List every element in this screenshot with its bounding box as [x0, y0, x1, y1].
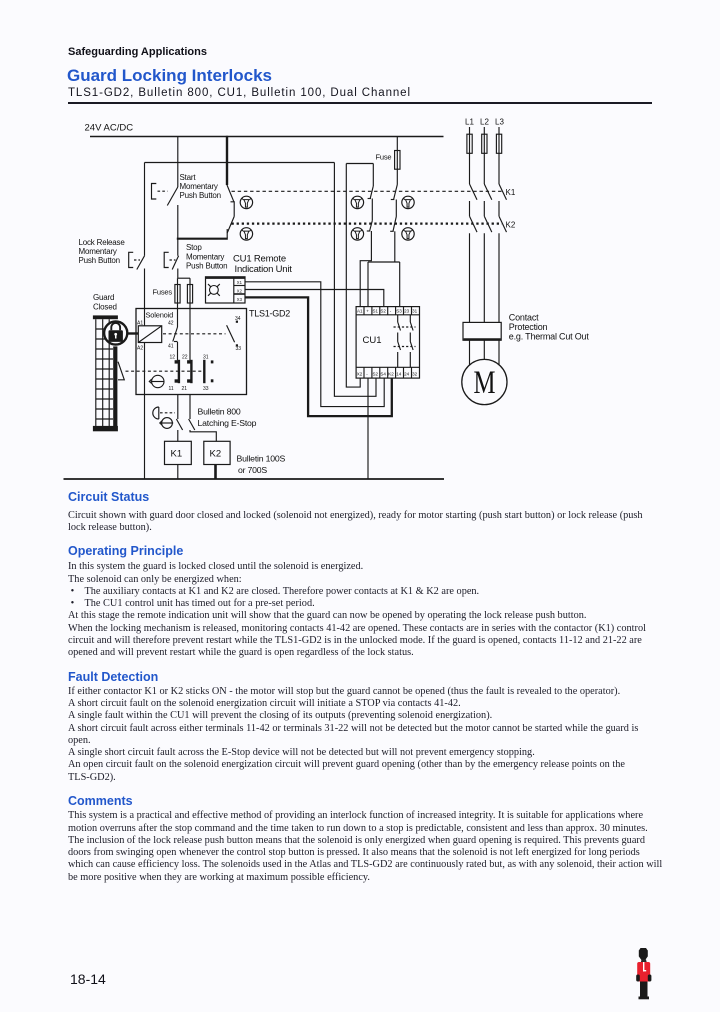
svg-text:TLS1-GD2: TLS1-GD2: [249, 309, 290, 319]
wire remote X1 to CU1: [245, 282, 384, 407]
contact 21-22 guard door channel 2: [182, 309, 192, 393]
guard door grid: [96, 319, 113, 426]
svg-text:-: -: [366, 372, 368, 377]
wire bottom return rail: [64, 478, 445, 480]
svg-text:41: 41: [168, 344, 174, 350]
fuse L3: [496, 127, 501, 184]
contact K2 aux in control feed: [390, 200, 396, 263]
svg-text:Solenoid: Solenoid: [146, 311, 174, 320]
subtitle: [68, 87, 411, 99]
wire remote X2 to CU1 top: [245, 290, 384, 307]
svg-text:e.g. Thermal Cut Out: e.g. Thermal Cut Out: [509, 332, 590, 342]
svg-text:Momentary: Momentary: [79, 247, 117, 256]
svg-text:Indication Unit: Indication Unit: [235, 264, 293, 275]
svg-text:-: -: [390, 309, 392, 314]
section: Fault Detection: [68, 670, 158, 684]
svg-text:Start: Start: [180, 173, 197, 182]
svg-text:Push Button: Push Button: [180, 191, 221, 200]
svg-text:K1: K1: [171, 449, 183, 460]
dashed link solenoid to contact 33-34: [163, 333, 226, 335]
page number: [70, 971, 106, 987]
contact 41-42 channel 1 monitor: [168, 309, 178, 361]
svg-text:A1: A1: [357, 309, 363, 314]
svg-text:32: 32: [412, 372, 418, 377]
svg-text:L2: L2: [480, 118, 489, 127]
svg-text:14: 14: [396, 372, 402, 377]
svg-text:22: 22: [182, 355, 188, 361]
svg-text:Momentary: Momentary: [186, 253, 224, 262]
wire top supply rail: [90, 136, 444, 138]
svg-text:X2: X2: [237, 288, 243, 293]
svg-text:24V AC/DC: 24V AC/DC: [85, 123, 134, 134]
svg-text:CU1 Remote: CU1 Remote: [233, 254, 286, 265]
E-stop contact channel 1: [176, 419, 182, 441]
svg-text:31: 31: [412, 309, 418, 314]
wire solenoid A2 down to rail: [144, 343, 146, 480]
indicator lamp in remote unit: [208, 284, 220, 296]
svg-text:or 700S: or 700S: [238, 465, 267, 475]
dashed actuator line through door contacts: [126, 370, 204, 372]
fuse F1 channel 1: [175, 278, 180, 308]
svg-text:33: 33: [203, 386, 209, 392]
contact K1 auxiliary NO: [227, 185, 234, 217]
section: Comments: [68, 794, 133, 808]
svg-text:Bulletin 100S: Bulletin 100S: [237, 454, 286, 464]
CU1 safety relay box: [356, 307, 419, 379]
thermal cut out box: [463, 322, 501, 365]
svg-text:X2: X2: [357, 372, 363, 377]
svg-text:Guard: Guard: [93, 293, 114, 302]
fuse F2 channel 2: [187, 278, 192, 308]
indicator lamp left bottom: [240, 228, 252, 240]
svg-text:Stop: Stop: [186, 243, 202, 252]
E-stop contact channel 2: [189, 419, 217, 441]
svg-text:M: M: [474, 365, 496, 401]
fuse F3 control circuit: [395, 137, 400, 170]
contact 11-12 guard door channel 1: [169, 355, 179, 393]
svg-text:K1: K1: [506, 188, 516, 197]
wire feed to CU1 via left loop: [334, 163, 376, 397]
contactor coil K1: [165, 441, 192, 479]
wire channel 1 to E-stop: [177, 395, 179, 420]
svg-text:Bulletin 800: Bulletin 800: [198, 407, 241, 417]
svg-text:12: 12: [170, 355, 176, 361]
svg-text:31: 31: [203, 355, 209, 361]
wire padlock to solenoid (bold): [127, 332, 139, 334]
indicator lamp left top: [240, 196, 252, 208]
svg-text:Momentary: Momentary: [180, 182, 218, 191]
push button Lock Release contact: [129, 163, 145, 326]
svg-text:24: 24: [404, 372, 410, 377]
contact K2 power poles: [470, 216, 507, 322]
svg-text:Push Button: Push Button: [186, 262, 227, 271]
CU1 internal contacts: [394, 315, 416, 368]
svg-text:CU1: CU1: [363, 335, 382, 346]
push button Stop contact: [164, 239, 178, 279]
contact K2 auxiliary NO: [227, 217, 234, 239]
wire remote X3 to CU1 (bold): [245, 297, 392, 416]
svg-text:Lock Release: Lock Release: [79, 238, 126, 247]
svg-text:34: 34: [235, 316, 241, 322]
guard door top bar: [93, 315, 118, 319]
wire CU1 return to rail: [367, 378, 369, 479]
svg-text:+: +: [366, 309, 369, 314]
wire start button drop: [177, 137, 179, 188]
indicator lamp right top: [402, 196, 414, 208]
wire aux loop left down: [346, 164, 360, 388]
svg-text:L1: L1: [465, 118, 474, 127]
solenoid coil: [138, 326, 161, 343]
contact K1 power poles: [470, 184, 507, 216]
wire lock-release feed horizontal: [145, 162, 335, 164]
svg-text:S2: S2: [373, 372, 379, 377]
svg-text:Closed: Closed: [93, 303, 117, 312]
svg-text:Latching E-Stop: Latching E-Stop: [198, 418, 257, 428]
TLS1-GD2 enclosure box: [136, 309, 247, 395]
svg-text:S3: S3: [396, 309, 402, 314]
E-stop mushroom head: [153, 407, 175, 428]
wire aux loop top: [346, 163, 373, 165]
svg-text:A1: A1: [137, 321, 143, 327]
svg-text:S2: S2: [380, 309, 386, 314]
svg-text:A2: A2: [137, 346, 143, 352]
wire K1/K2 auxiliary seal-in branch (bold): [226, 136, 228, 185]
contactor coil K2: [204, 441, 230, 479]
dashed mechanical link K1 row: [232, 190, 504, 192]
wire bold junction horizontal: [177, 238, 228, 240]
svg-text:K2: K2: [210, 449, 222, 460]
contact K1 monitor loop: [368, 164, 374, 199]
svg-text:Fuses: Fuses: [153, 288, 173, 297]
push button Start contact: [152, 184, 178, 239]
Guardmaster soldier logo: [632, 946, 658, 1002]
fuse L2: [482, 127, 487, 184]
svg-text:K2: K2: [388, 372, 394, 377]
svg-text:Fuse: Fuse: [376, 153, 392, 162]
svg-text:X3: X3: [237, 297, 243, 302]
svg-text:21: 21: [182, 386, 188, 392]
contact 33-34 solenoid monitoring: [227, 316, 242, 352]
dotted mechanical link K2 row (bold): [232, 222, 503, 224]
guard door bottom bar: [93, 426, 118, 431]
svg-text:11: 11: [169, 386, 174, 392]
svg-text:23: 23: [404, 309, 410, 314]
contact 31-33 auxiliary: [203, 355, 213, 393]
svg-text:L3: L3: [495, 118, 504, 127]
section: Operating Principle: [68, 544, 183, 558]
section: Circuit Status: [68, 490, 149, 504]
svg-text:33: 33: [236, 346, 242, 352]
manual release symbol: [149, 375, 164, 387]
svg-text:Protection: Protection: [509, 322, 548, 332]
svg-text:K2: K2: [506, 221, 516, 230]
rule: [68, 102, 652, 104]
padlock: [104, 321, 127, 344]
svg-text:Contact: Contact: [509, 313, 539, 323]
wire branch to channel fuses: [178, 277, 190, 279]
lock tongue flag: [118, 362, 124, 380]
header: Safeguarding Applications: [68, 46, 207, 58]
svg-text:S1: S1: [373, 309, 379, 314]
title: Guard Locking Interlocks: [67, 66, 272, 86]
contact K2 monitor loop: [360, 199, 372, 307]
motor M: [462, 359, 507, 404]
indicator lamp right bottom: [402, 228, 414, 240]
indicator lamp middle top: [351, 196, 363, 208]
svg-text:X1: X1: [237, 280, 243, 285]
wire channel 2 to E-stop: [189, 395, 191, 420]
guard door right bar: [113, 346, 117, 428]
CU1 remote indication unit box: [206, 277, 246, 303]
wire control feed junction into CU1: [368, 262, 400, 306]
svg-text:42: 42: [168, 321, 174, 327]
indicator lamp middle bottom: [351, 228, 363, 240]
svg-text:Push Button: Push Button: [79, 256, 120, 265]
contact K1 aux in control feed: [391, 169, 398, 199]
svg-text:S4: S4: [380, 372, 386, 377]
fuse L1: [467, 127, 472, 184]
